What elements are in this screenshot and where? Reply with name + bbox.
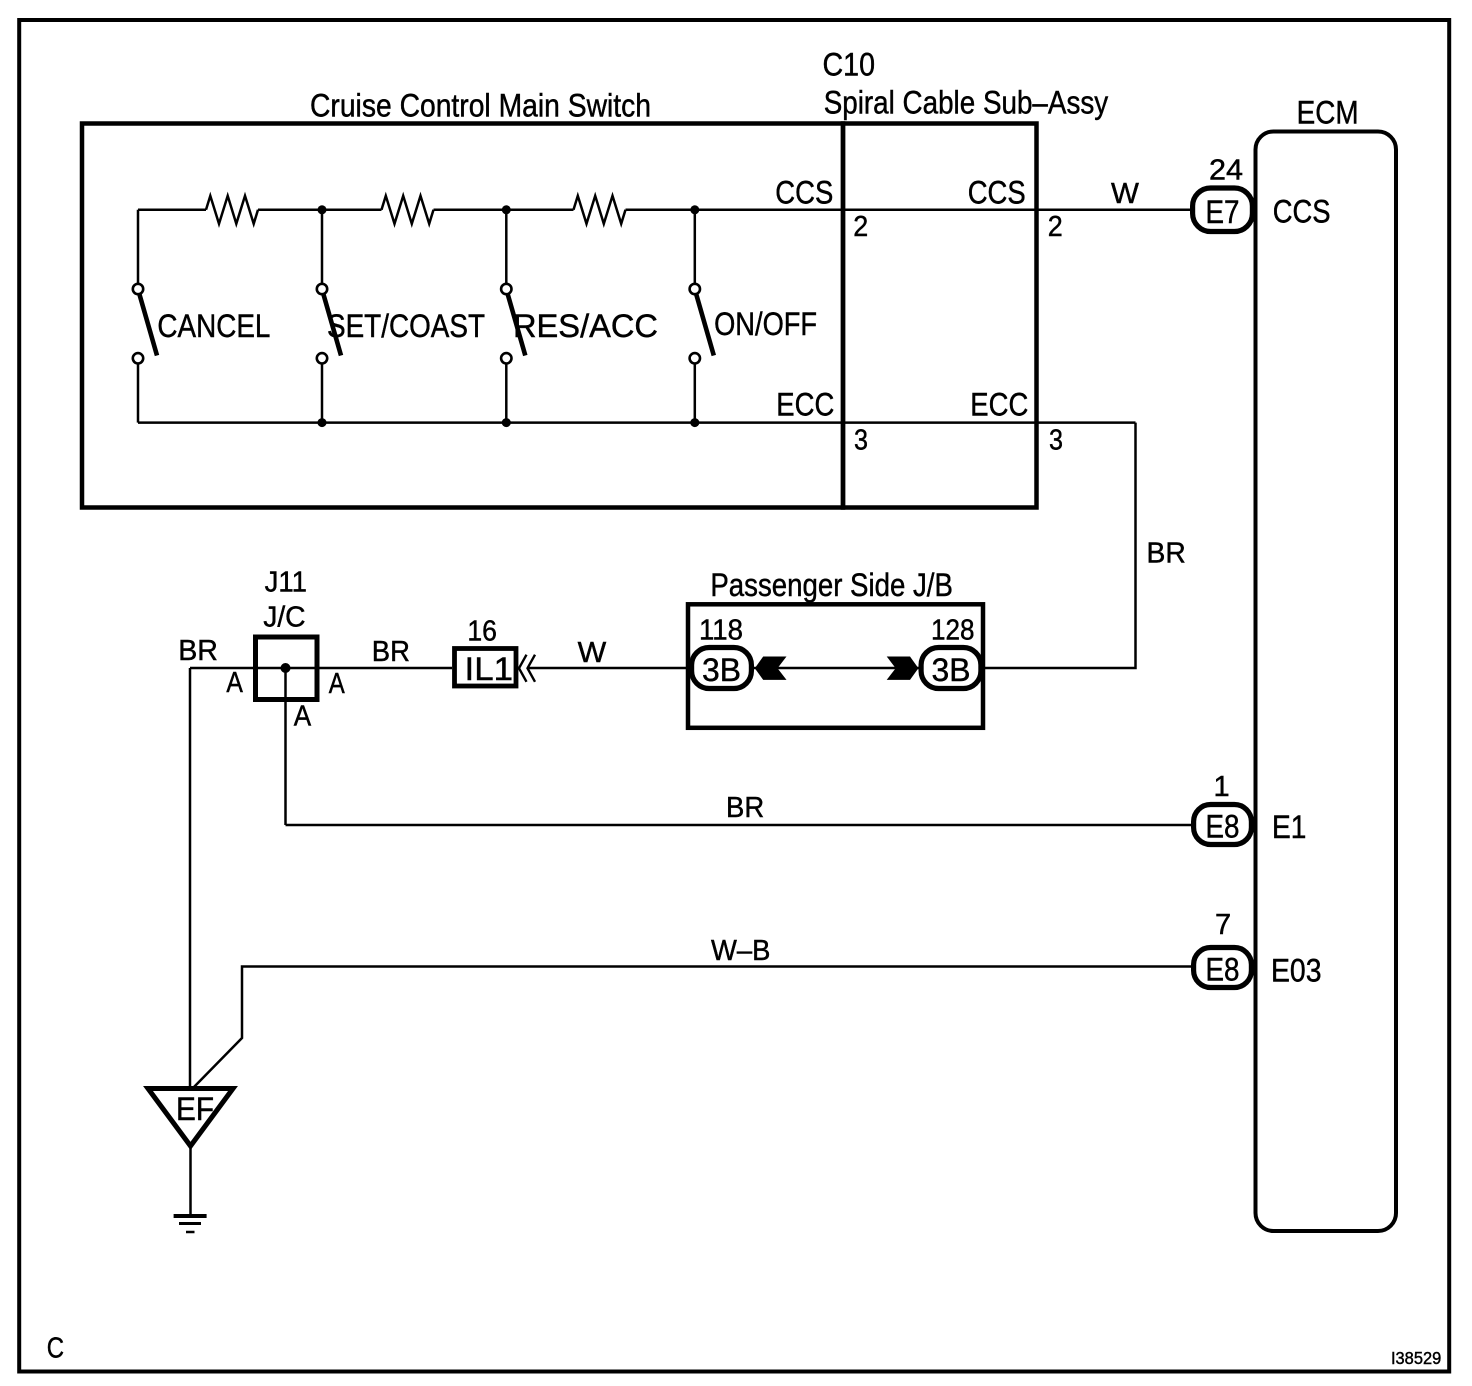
switch ON/OFF lever xyxy=(696,295,714,356)
svg-text:ECC: ECC xyxy=(970,386,1028,422)
svg-text:16: 16 xyxy=(467,616,497,648)
wire ON/OFF branch bottom xyxy=(694,364,697,423)
svg-text:EF: EF xyxy=(176,1091,214,1127)
switch CANCEL contact bottom xyxy=(133,353,143,363)
svg-text:C10: C10 xyxy=(823,46,876,82)
svg-text:3B: 3B xyxy=(702,652,741,688)
resistor R1 xyxy=(206,196,258,224)
ECM block xyxy=(1256,132,1397,1232)
svg-text:128: 128 xyxy=(931,615,975,647)
arrow right at J/B xyxy=(887,657,919,680)
switch ON/OFF contact bottom xyxy=(690,353,700,363)
svg-text:A: A xyxy=(226,667,243,699)
svg-text:C: C xyxy=(47,1333,64,1365)
ground EF triangle xyxy=(148,1089,233,1147)
svg-text:SET/COAST: SET/COAST xyxy=(327,308,485,344)
svg-text:7: 7 xyxy=(1215,909,1231,941)
svg-text:BR: BR xyxy=(372,636,410,668)
svg-text:ON/OFF: ON/OFF xyxy=(714,306,817,342)
connector 3B pin 128 xyxy=(921,648,981,689)
connector arrows << at IL1 xyxy=(519,655,527,682)
wire SET/COAST branch bottom xyxy=(321,364,324,423)
arrow left at J/B xyxy=(755,657,787,680)
svg-text:E8: E8 xyxy=(1206,809,1240,845)
wire BR vertical down from J/C corner xyxy=(189,668,192,1089)
svg-text:J/C: J/C xyxy=(263,602,305,634)
svg-text:ECM: ECM xyxy=(1297,94,1359,130)
svg-text:A: A xyxy=(294,700,312,732)
svg-text:BR: BR xyxy=(178,635,218,667)
wire BR to E8 pin 1 xyxy=(286,824,1192,827)
wire RES/ACC branch bottom xyxy=(505,364,508,423)
box Cruise Control Main Switch xyxy=(82,124,843,508)
connector IL1 box xyxy=(455,649,517,687)
wire RES/ACC branch top xyxy=(505,210,508,283)
wire xyxy=(258,209,382,212)
wire CCS to E7 xyxy=(626,209,1191,212)
resistor R2 xyxy=(382,196,434,224)
wire from J/C dot down to E1 wire xyxy=(284,668,287,825)
svg-text:BR: BR xyxy=(1147,538,1186,570)
junction dot xyxy=(690,418,699,427)
svg-text:Passenger Side J/B: Passenger Side J/B xyxy=(710,567,953,603)
svg-text:E7: E7 xyxy=(1206,194,1240,230)
switch SET/COAST lever xyxy=(324,295,342,356)
svg-text:CCS: CCS xyxy=(968,174,1026,210)
junction dot xyxy=(318,205,327,214)
switch RES/ACC lever xyxy=(508,295,526,356)
svg-text:W: W xyxy=(578,637,607,669)
svg-text:1: 1 xyxy=(1214,771,1230,803)
ground symbol xyxy=(174,1214,207,1218)
connector E8 pin 1 xyxy=(1194,805,1252,845)
wire inside J/B between 3B connectors xyxy=(754,667,919,670)
svg-text:RES/ACC: RES/ACC xyxy=(513,308,658,344)
connector 3B pin 118 xyxy=(692,648,752,689)
svg-text:BR: BR xyxy=(726,792,764,824)
junction dot xyxy=(318,418,327,427)
svg-text:Spiral Cable Sub–Assy: Spiral Cable Sub–Assy xyxy=(824,84,1109,120)
wire CCS top bus xyxy=(138,209,206,212)
junction dot J/C xyxy=(281,663,291,673)
svg-text:W: W xyxy=(1111,178,1140,210)
svg-text:3B: 3B xyxy=(932,652,971,688)
wire CANCEL branch top xyxy=(137,210,140,283)
wire W-B to E8 pin 7 xyxy=(193,967,1191,1089)
svg-text:2: 2 xyxy=(1048,211,1063,243)
switch ON/OFF contact top xyxy=(690,284,700,294)
switch CANCEL contact top xyxy=(133,284,143,294)
svg-text:J11: J11 xyxy=(265,567,307,599)
switch SET/COAST contact top xyxy=(317,284,327,294)
wire IL1 to J/B xyxy=(528,667,690,670)
svg-text:118: 118 xyxy=(699,615,743,647)
junction dot xyxy=(502,418,511,427)
svg-text:2: 2 xyxy=(853,211,868,243)
junction joint J11 J/C box xyxy=(256,637,318,700)
svg-text:A: A xyxy=(329,668,346,700)
wire J/C to J/B horizontal xyxy=(190,667,452,670)
svg-text:Cruise Control Main Switch: Cruise Control Main Switch xyxy=(310,87,651,123)
svg-text:I38529: I38529 xyxy=(1391,1348,1441,1368)
svg-text:CANCEL: CANCEL xyxy=(157,308,270,344)
connector E7 pin 24 xyxy=(1193,188,1253,232)
svg-text:3: 3 xyxy=(854,425,868,457)
junction dot xyxy=(502,205,511,214)
svg-text:W–B: W–B xyxy=(711,935,770,967)
box Passenger Side J/B xyxy=(688,604,983,728)
wire ECC bottom bus xyxy=(138,421,1136,424)
wire xyxy=(434,209,574,212)
svg-text:CCS: CCS xyxy=(1273,194,1331,230)
wire ON/OFF branch top xyxy=(694,210,697,283)
switch RES/ACC contact bottom xyxy=(501,353,511,363)
box C10 Spiral Cable Sub-Assy xyxy=(843,124,1037,508)
wire EF to ground xyxy=(189,1146,192,1216)
svg-text:E03: E03 xyxy=(1271,953,1322,989)
wire CANCEL branch bottom xyxy=(137,364,140,423)
connector E8 pin 7 xyxy=(1194,948,1252,988)
svg-text:CCS: CCS xyxy=(775,174,833,210)
svg-text:IL1: IL1 xyxy=(465,651,514,687)
wire BR from ECC to J/B xyxy=(984,423,1136,668)
svg-text:ECC: ECC xyxy=(776,386,834,422)
svg-text:E8: E8 xyxy=(1206,952,1240,988)
svg-text:E1: E1 xyxy=(1272,809,1306,845)
svg-text:3: 3 xyxy=(1049,425,1063,457)
switch CANCEL lever xyxy=(140,295,158,356)
junction dot xyxy=(690,205,699,214)
resistor R3 xyxy=(574,196,626,224)
wire SET/COAST branch top xyxy=(321,210,324,283)
switch SET/COAST contact bottom xyxy=(317,353,327,363)
svg-text:24: 24 xyxy=(1209,154,1243,186)
switch RES/ACC contact top xyxy=(501,284,511,294)
